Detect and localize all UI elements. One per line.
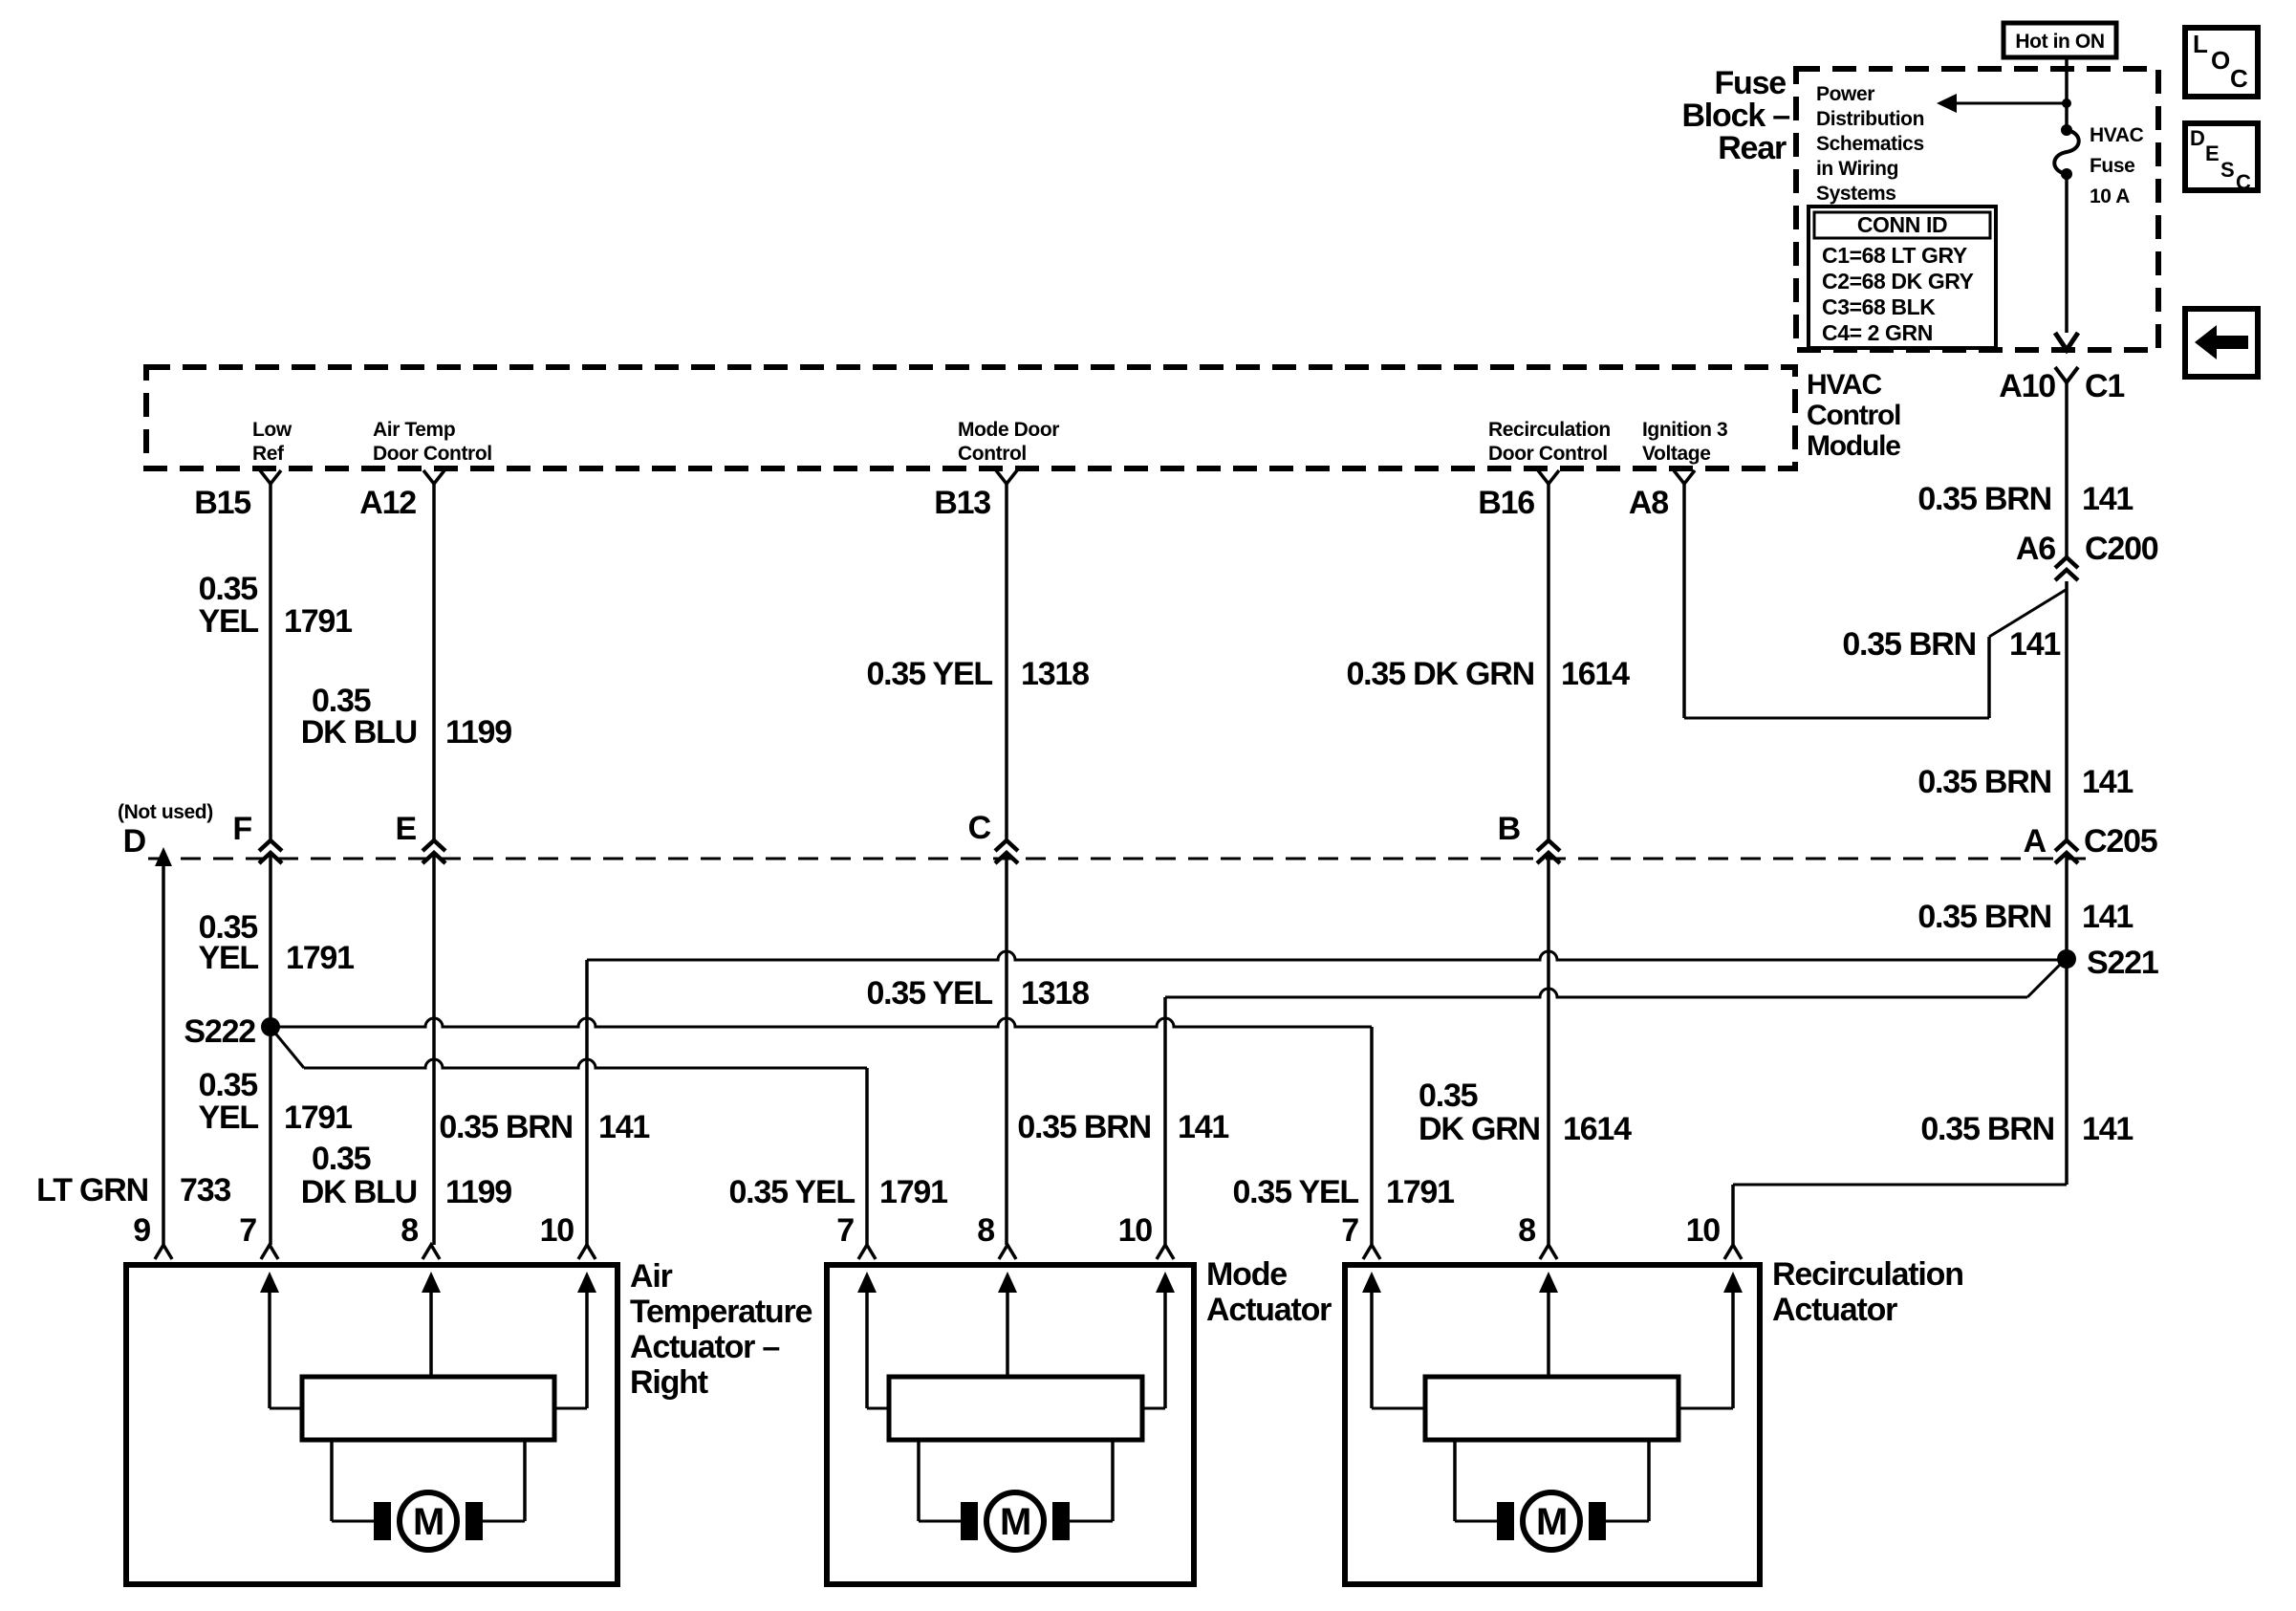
wire fuse to A10 [2065,174,2069,333]
svg-text:LT GRN: LT GRN [36,1172,148,1208]
recirculation actuator motor M [1497,1502,1514,1540]
svg-text:733: 733 [180,1172,230,1208]
svg-text:Rear: Rear [1718,130,1787,166]
svg-text:Hot in ON: Hot in ON [2015,31,2104,53]
air temperature actuator potentiometer [302,1377,554,1440]
wire 141 C205 to S221 [2065,853,2069,959]
actuator2 pin 7 fork [858,1245,876,1259]
fuse HVAC Fuse 10A [2061,124,2072,136]
wire 1791 S222 bus [271,1018,1372,1027]
svg-text:0.35 YEL: 0.35 YEL [866,656,992,692]
svg-text:0.35: 0.35 [199,571,258,607]
junction dot feed [2062,98,2071,108]
svg-text:1318: 1318 [1021,656,1089,692]
connector C205 pin B symbol [1537,840,1560,851]
svg-text:Schematics: Schematics [1816,133,1924,155]
svg-text:0.35: 0.35 [199,1067,258,1103]
svg-text:HVAC: HVAC [1807,369,1882,401]
svg-text:C2=68 DK GRY: C2=68 DK GRY [1822,269,1974,294]
svg-text:7: 7 [239,1212,256,1249]
air temperature actuator motor wires [330,1440,334,1521]
svg-text:1791: 1791 [879,1174,947,1210]
svg-text:1791: 1791 [284,603,352,640]
svg-text:0.35 YEL: 0.35 YEL [1232,1174,1358,1210]
svg-text:Distribution: Distribution [1816,108,1924,130]
svg-text:0.35 BRN: 0.35 BRN [1920,1111,2054,1147]
svg-text:YEL: YEL [198,940,258,976]
svg-text:8: 8 [977,1212,994,1249]
svg-text:141: 141 [1178,1109,1228,1145]
svg-text:8: 8 [401,1212,418,1249]
actuator2 pin 8 fork [999,1245,1016,1259]
actuator3 pin 8 fork [1540,1245,1557,1259]
svg-text:10: 10 [1686,1212,1721,1249]
recirculation actuator box [1345,1265,1760,1584]
svg-text:1614: 1614 [1561,656,1630,692]
mode actuator box [827,1265,1194,1584]
wire 1318 mode door B13 to pin 8 [1005,482,1008,840]
svg-text:Module: Module [1807,430,1900,462]
wire 1199 air temp A12 to pin 8 [432,482,436,840]
recirculation actuator arrow pin 7 [1372,1407,1425,1410]
arrow into connector C1 [2055,333,2078,350]
mode actuator arrow pin 7 [867,1407,889,1410]
wire 141 drop to actuator2 pin10 [1163,997,1167,1245]
svg-text:B15: B15 [194,485,250,521]
svg-text:Low: Low [252,419,292,441]
module pin A8 fork [1674,470,1695,484]
svg-text:DK BLU: DK BLU [301,714,417,751]
svg-text:Ref: Ref [252,443,285,465]
svg-text:Mode: Mode [1206,1256,1287,1293]
svg-text:1199: 1199 [445,714,511,751]
svg-text:Mode Door: Mode Door [958,419,1059,441]
svg-text:A: A [2024,823,2047,860]
module pin B15 fork [260,470,281,484]
svg-text:F: F [232,811,251,847]
svg-text:S222: S222 [184,1013,255,1050]
wire 141 drop to actuator1 pin10 [585,960,589,1245]
svg-text:A6: A6 [2016,531,2055,567]
svg-text:S: S [2220,158,2234,182]
svg-text:C: C [2230,64,2248,93]
svg-text:Air Temp: Air Temp [373,419,455,441]
actuator1 pin 10 fork [578,1245,596,1259]
svg-text:(Not used): (Not used) [118,801,213,823]
svg-text:10: 10 [1118,1212,1153,1249]
wire 141 from C1 to C200 [2065,382,2069,557]
svg-text:DK GRN: DK GRN [1419,1111,1540,1147]
svg-text:YEL: YEL [198,603,258,640]
svg-text:1199: 1199 [445,1174,511,1210]
wire 733 pin D to pin 9 [155,847,172,866]
svg-text:0.35 BRN: 0.35 BRN [1842,626,1976,663]
back arrow icon box [2185,309,2258,377]
actuator1 pin 8 fork [422,1245,440,1259]
wire 1791 drop to recirc pin7 [1370,1027,1374,1245]
actuator1 pin 7 fork [261,1245,278,1259]
svg-text:C205: C205 [2084,823,2157,860]
svg-text:7: 7 [836,1212,854,1249]
svg-text:Recirculation: Recirculation [1772,1256,1963,1293]
svg-text:8: 8 [1518,1212,1535,1249]
mode actuator motor wires [917,1440,921,1521]
svg-text:141: 141 [598,1109,649,1145]
svg-text:141: 141 [2009,626,2060,663]
svg-text:141: 141 [2082,1111,2133,1147]
svg-text:Block –: Block – [1681,98,1789,134]
connector C205 pin A symbol [2055,840,2078,851]
svg-text:D: D [123,823,146,860]
svg-text:Power: Power [1816,83,1874,105]
svg-text:0.35 BRN: 0.35 BRN [1917,764,2051,800]
svg-text:10: 10 [540,1212,574,1249]
svg-text:1791: 1791 [284,1099,352,1136]
wire 141 branch to mode pin10 [1165,989,2027,997]
wire 1791 low ref B15 to pin 7 [269,482,272,840]
svg-text:Actuator: Actuator [1772,1292,1897,1328]
svg-text:Air: Air [630,1258,673,1295]
splice S222 branch diagonal [272,1030,304,1068]
svg-text:Actuator: Actuator [1206,1292,1332,1328]
svg-text:A12: A12 [359,485,416,521]
svg-text:DK BLU: DK BLU [301,1174,417,1210]
svg-text:141: 141 [2082,764,2133,800]
svg-text:1791: 1791 [286,940,354,976]
air temperature actuator box [126,1265,617,1584]
recirculation actuator wiper arrow pin 8 [1547,1289,1550,1377]
mode actuator motor M [961,1502,978,1540]
svg-text:Actuator –: Actuator – [630,1329,779,1365]
wire 141 ignition A8 jog [1682,482,1686,718]
svg-text:C1: C1 [2085,368,2124,404]
svg-text:0.35 YEL: 0.35 YEL [866,975,992,1012]
wire 1614 recirc door B16 to pin 8 [1547,482,1550,840]
wire 141 C200 to C205 [2065,581,2069,840]
connector C205 pin F symbol [259,840,282,851]
power feed box Hot in ON [2004,23,2116,57]
svg-text:Control: Control [958,443,1027,465]
svg-text:L: L [2193,30,2208,58]
svg-text:Systems: Systems [1816,183,1896,205]
svg-text:Right: Right [630,1364,708,1401]
mode actuator wiper arrow pin 8 [1006,1289,1009,1377]
svg-text:0.35 BRN: 0.35 BRN [1017,1109,1151,1145]
svg-text:0.35 YEL: 0.35 YEL [728,1174,855,1210]
LOC icon box [2185,28,2258,97]
splice S222 dot [261,1017,280,1036]
actuator3 pin 7 fork [1363,1245,1380,1259]
svg-text:Control: Control [1807,400,1900,431]
connector C200 symbol [2055,557,2078,568]
svg-text:Temperature: Temperature [630,1294,812,1330]
svg-text:Fuse: Fuse [1714,65,1786,101]
svg-text:M: M [1000,1501,1030,1543]
svg-text:10 A: 10 A [2090,185,2130,207]
svg-text:9: 9 [133,1212,150,1249]
mode actuator arrow pin 10 [1142,1407,1165,1410]
svg-text:Voltage: Voltage [1642,443,1711,465]
svg-text:C4= 2 GRN: C4= 2 GRN [1822,320,1933,345]
actuator1 pin 9 fork [155,1245,172,1259]
wire 141 S221 to recirc pin10 [2065,959,2069,1185]
svg-text:M: M [413,1501,444,1543]
connector C1 pin A10 fork [2055,367,2078,382]
svg-text:1318: 1318 [1021,975,1089,1012]
svg-text:YEL: YEL [198,1099,258,1136]
recirculation actuator arrow pin 10 [1679,1407,1733,1410]
svg-text:Door Control: Door Control [373,443,492,465]
air temperature actuator motor M [374,1502,391,1540]
svg-text:0.35 BRN: 0.35 BRN [1917,899,2051,935]
svg-text:Fuse: Fuse [2090,155,2134,177]
module pin A12 fork [423,470,444,484]
connector C205 pin E symbol [422,840,445,851]
connector C205 dashed line [148,858,2096,860]
air temperature actuator arrow pin 7 [270,1407,302,1410]
svg-text:C200: C200 [2085,531,2158,567]
wire 141 S221 bus [587,951,2061,960]
svg-text:1614: 1614 [1563,1111,1632,1147]
mode actuator potentiometer [889,1377,1142,1440]
svg-text:Recirculation: Recirculation [1488,419,1611,441]
air temperature actuator wiper arrow pin 8 [429,1289,433,1377]
svg-text:HVAC: HVAC [2090,124,2144,146]
svg-text:1791: 1791 [1386,1174,1454,1210]
HVAC control module dashed box [146,367,1795,468]
svg-text:C1=68 LT GRY: C1=68 LT GRY [1822,243,1967,268]
svg-text:7: 7 [1341,1212,1358,1249]
splice S221 dot [2057,949,2076,969]
svg-text:CONN ID: CONN ID [1857,212,1947,237]
svg-text:Ignition 3: Ignition 3 [1642,419,1727,441]
wire 1791 drop to mode pin7 [865,1068,869,1245]
actuator3 pin 10 fork [1724,1245,1742,1259]
svg-text:B13: B13 [934,485,990,521]
svg-text:E: E [396,811,417,847]
module pin B16 fork [1538,470,1559,484]
svg-text:0.35: 0.35 [1419,1078,1478,1114]
svg-text:A8: A8 [1629,485,1668,521]
svg-text:D: D [2190,126,2205,150]
svg-text:0.35 DK GRN: 0.35 DK GRN [1346,656,1534,692]
svg-text:0.35: 0.35 [312,1141,371,1177]
svg-text:O: O [2211,46,2230,75]
svg-text:B: B [1498,811,1521,847]
svg-text:0.35 BRN: 0.35 BRN [439,1109,573,1145]
svg-text:M: M [1536,1501,1567,1543]
svg-text:141: 141 [2082,899,2133,935]
svg-text:141: 141 [2082,481,2133,517]
svg-text:0.35 BRN: 0.35 BRN [1917,481,2051,517]
svg-text:E: E [2205,142,2219,165]
splice S221 diagonal [2027,962,2063,997]
connector C205 pin C symbol [995,840,1018,851]
svg-text:C3=68 BLK: C3=68 BLK [1822,294,1936,319]
svg-text:Door Control: Door Control [1488,443,1608,465]
svg-text:S221: S221 [2087,945,2158,981]
wire 1791 S222 branch [304,1059,867,1068]
module pin B13 fork [996,470,1017,484]
wire ignition feed [2065,57,2069,125]
actuator2 pin 10 fork [1157,1245,1174,1259]
svg-text:B16: B16 [1478,485,1534,521]
recirculation actuator motor wires [1453,1440,1457,1521]
svg-text:C: C [2236,170,2251,194]
CONN ID table [1809,207,1996,348]
svg-text:C: C [968,810,991,846]
air temperature actuator arrow pin 10 [554,1407,587,1410]
svg-text:in Wiring: in Wiring [1816,158,1898,180]
fuse block rear dashed box [1796,69,2158,350]
svg-text:A10: A10 [1999,368,2055,404]
recirculation actuator potentiometer [1425,1377,1679,1440]
arrow to power distribution schematics [1953,102,2067,105]
DESC icon box [2185,123,2258,190]
